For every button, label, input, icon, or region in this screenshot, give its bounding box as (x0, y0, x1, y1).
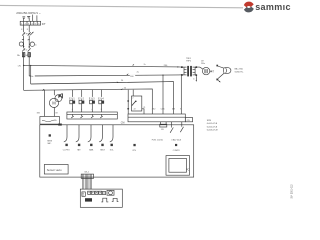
terminal CPS (133, 144, 135, 146)
PCB trace 3 (88, 125, 91, 142)
svg-text:230v: 230v (201, 63, 205, 65)
svg-text:Sensor vacio: Sensor vacio (47, 168, 63, 172)
bus N horizontal (29, 75, 179, 76)
svg-text:50/60 Hz.: 50/60 Hz. (235, 72, 244, 74)
vacuum pump symbol (55, 95, 62, 102)
connector CM (67, 112, 117, 119)
svg-text:6-002-07-B: 6-002-07-B (207, 126, 218, 128)
svg-text:2: 2 (132, 97, 133, 99)
dip switch 3 (95, 191, 98, 194)
label 240 on bus N (130, 75, 135, 78)
label 6c (31, 75, 35, 78)
switch actuator arrow (30, 32, 33, 35)
fuse on PCB (160, 122, 162, 124)
solenoid EV4 coil (99, 100, 102, 104)
wire B feed line (24, 89, 153, 114)
svg-text:8: 8 (101, 109, 102, 111)
bus N net marker (126, 73, 128, 75)
svg-text:CM: CM (121, 123, 125, 125)
svg-text:4: 4 (92, 109, 93, 111)
jumper component 2 (112, 198, 119, 201)
svg-text:DT: DT (42, 22, 46, 26)
motor to switch wire (53, 108, 55, 117)
dip switch 2 (91, 191, 94, 194)
motor M1 (49, 98, 58, 107)
svg-text:CL.PRG: CL.PRG (63, 149, 70, 151)
junction dot L (23, 46, 24, 47)
wire L down (23, 36, 25, 49)
connector CN6 box (185, 118, 192, 122)
main switch pole N (28, 32, 31, 35)
svg-text:FUS. CX2 A: FUS. CX2 A (152, 138, 163, 141)
wire bus N tap to CN2 (162, 75, 164, 114)
sensor terminal (49, 134, 51, 136)
transformer pin dots (181, 66, 183, 68)
wire L down (23, 25, 25, 32)
svg-text:LN: LN (18, 66, 21, 68)
pump BA body (225, 68, 231, 74)
svg-text:M: M (56, 113, 58, 115)
svg-text:VAC.: VAC. (47, 142, 52, 145)
junction dot (127, 100, 129, 102)
transformer secondary stub down (195, 76, 197, 81)
bus N jog to transformer (180, 74, 182, 76)
svg-text:b: b (193, 78, 194, 80)
PCB board outline (40, 125, 194, 177)
junction arrow (42, 89, 45, 91)
svg-text:0 AD/ 02 A: 0 AD/ 02 A (171, 138, 181, 141)
wire BA down (218, 73, 224, 78)
IC U1 (85, 198, 92, 201)
vacuum switch terminal (58, 124, 62, 126)
node dot (216, 65, 218, 67)
dip switch 5 (103, 191, 106, 194)
label EV4 (98, 97, 105, 100)
capacitor A.T (202, 67, 209, 74)
solenoid EV1 drop (72, 90, 74, 101)
contact 2 coupling dashed (24, 49, 27, 51)
wire L down to bus (23, 57, 25, 91)
component connector J1 (82, 192, 85, 196)
primary pin links (182, 66, 184, 68)
relay contact box (132, 96, 142, 111)
svg-text:M: M (52, 101, 56, 106)
svg-text:22: 22 (134, 109, 136, 111)
terminal CL.PRG (65, 144, 67, 146)
junction dot (127, 108, 129, 110)
phase mark N (27, 17, 30, 18)
CPU module (166, 156, 190, 176)
sensor vacio box (44, 165, 68, 175)
fuse F1 (22, 53, 24, 57)
svg-text:2c: 2c (144, 64, 146, 66)
header rule (0, 5, 243, 7)
keyboard board outline (80, 189, 122, 207)
wire N down (28, 25, 30, 32)
svg-text:SPB: SPB (207, 120, 212, 122)
svg-text:230v/50-60Hz/1 ~: 230v/50-60Hz/1 ~ (16, 11, 41, 15)
solenoid EV4 drop (101, 90, 103, 100)
label EV3 (89, 97, 96, 100)
bus L horizontal (24, 65, 179, 67)
wire stub aux2 (36, 15, 38, 21)
svg-text:6-003-07-M: 6-003-07-M (207, 129, 218, 131)
solenoid EV2 coil (79, 100, 82, 104)
wire N down (28, 36, 30, 49)
main switch pole L (22, 32, 25, 35)
bus L net marker (132, 64, 134, 66)
wire N down to bus (28, 57, 30, 76)
terminal strip DT (20, 21, 40, 25)
solenoid EV1 coil (70, 100, 73, 104)
wire secondary to A.T (197, 67, 203, 69)
crimp tick N (28, 39, 30, 41)
jumper component 1 (101, 198, 108, 202)
fuse F2 (28, 53, 30, 57)
A.T stub right (210, 70, 213, 72)
contact 2 pole L (22, 48, 25, 51)
PCB trace 1 (64, 125, 67, 142)
svg-text:SELR: SELR (100, 149, 105, 151)
crimp tick L (22, 38, 24, 40)
logo icon (Sammic S swoosh) (244, 2, 254, 13)
relay contact output wire (142, 109, 144, 114)
relay contact blades (135, 101, 137, 103)
svg-text:COMPR: COMPR (173, 150, 180, 152)
solenoid EV3 drop (91, 90, 93, 101)
svg-text:4: 4 (81, 109, 82, 111)
label 230 on bus (163, 64, 169, 67)
svg-text:6-001-07-B: 6-001-07-B (207, 123, 218, 125)
contact 2 pole N (28, 48, 31, 51)
svg-text:21: 21 (143, 107, 145, 109)
label EV2 (78, 97, 85, 100)
svg-text:SV- 2001-012: SV- 2001-012 (291, 184, 293, 199)
dip switch 1 (88, 191, 91, 194)
terminal COMPR (175, 144, 177, 146)
PCB trace 5 (110, 125, 113, 142)
motor feed drop (53, 90, 55, 95)
connector CN2 strip (128, 114, 185, 122)
ribbon cable (83, 175, 92, 190)
solenoid EV2 drop (81, 90, 83, 101)
wire to pump BA (218, 66, 224, 68)
label EV1 (69, 97, 76, 100)
bus L arrow (177, 66, 179, 67)
wire stub aux1 (32, 15, 34, 22)
svg-text:2u: 2u (137, 72, 139, 74)
svg-text:MAR.: MAR. (89, 148, 94, 151)
svg-text:BA: 230v: BA: 230v (235, 67, 244, 70)
wire C horizontal to PCB (31, 82, 174, 114)
vacuum switch box NO (40, 117, 60, 125)
contact K1 on PCB (171, 122, 173, 128)
svg-text:SOL.: SOL. (110, 149, 115, 151)
connector circle left (19, 42, 23, 46)
junction dot N (29, 46, 30, 47)
svg-text:4: 4 (72, 109, 73, 111)
terminal MAR (90, 144, 92, 146)
phase mark L (22, 17, 25, 18)
svg-text:NO: NO (37, 113, 41, 115)
PCB trace 4 (99, 125, 102, 142)
svg-text:sammıc: sammıc (255, 2, 291, 12)
buzzer BZ1 (107, 190, 114, 195)
contact K2 on PCB (181, 122, 183, 127)
terminal TAP (78, 144, 80, 146)
vacuum switch pin left (43, 90, 45, 116)
switch coupling dashed (24, 33, 30, 35)
svg-text:TAP.: TAP. (77, 148, 81, 151)
connector circle right (30, 42, 34, 46)
wire stub N to strip (28, 18, 30, 21)
wire stub L to strip (23, 19, 25, 22)
terminal SELR (101, 144, 103, 146)
dip switch 4 (99, 191, 102, 194)
svg-text:PC: PC (186, 168, 190, 171)
wire down to relay contact (127, 90, 129, 114)
PCB trace 2 (76, 125, 79, 142)
solenoid EV3 coil (90, 100, 93, 104)
tap from bus L down (30, 66, 32, 85)
wire transformer to CN2 (180, 76, 182, 114)
terminal SOL (111, 144, 113, 146)
relay contact pin top (132, 90, 134, 96)
junction dot bus L (23, 65, 24, 66)
